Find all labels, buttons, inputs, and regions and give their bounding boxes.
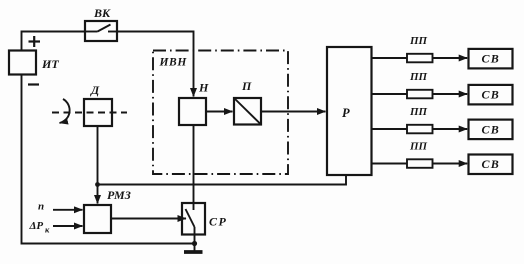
rotation arrow left of Д xyxy=(60,99,70,123)
block Р (tall box) xyxy=(327,47,372,175)
svg-text:СВ: СВ xyxy=(482,52,500,66)
input arrow n into РМЗ xyxy=(53,209,83,211)
label П xyxy=(241,79,252,93)
resistor ПП row 3 xyxy=(407,125,433,134)
svg-text:Д: Д xyxy=(90,83,100,97)
svg-text:п: п xyxy=(38,201,44,213)
wire: ПП to СВ row 4 xyxy=(433,163,468,165)
motor Д (box) xyxy=(84,99,112,126)
junction dot at ground xyxy=(192,241,197,246)
input arrow ΔРк into РМЗ xyxy=(53,225,83,227)
svg-text:РМЗ: РМЗ xyxy=(107,188,131,202)
svg-text:ПП: ПП xyxy=(409,35,428,47)
svg-text:ПП: ПП xyxy=(409,106,428,118)
svg-text:ПП: ПП xyxy=(409,141,428,153)
wire: Н down to СР switch xyxy=(193,125,195,210)
junction dot xyxy=(95,182,100,187)
wire: top bus from ВК to corner above Н with arrow into Н xyxy=(117,32,194,97)
wire: ПП to СВ row 2 xyxy=(433,93,468,95)
svg-text:ИВН: ИВН xyxy=(159,57,188,69)
resistor ПП row 1 xyxy=(407,54,433,63)
wire: РМЗ output arrow into СР xyxy=(111,218,186,220)
wire: Д down to junction xyxy=(97,126,99,185)
label РМЗ xyxy=(107,188,131,202)
svg-text:Н: Н xyxy=(198,81,209,95)
label ИВН xyxy=(159,57,188,69)
shaft axis (dashed) through Д xyxy=(52,112,127,114)
block СВ row 4 xyxy=(469,155,513,175)
block СВ row 1 xyxy=(469,49,513,69)
svg-text:ИТ: ИТ xyxy=(41,57,59,71)
resistor ПП row 4 xyxy=(407,159,433,168)
wire: arrow from junction down into РМЗ xyxy=(97,185,99,204)
label СР xyxy=(209,215,227,229)
label n xyxy=(38,201,44,213)
svg-text:П: П xyxy=(241,79,252,93)
label Н xyxy=(198,81,209,95)
svg-text:к: к xyxy=(45,225,50,235)
label Д xyxy=(90,83,100,97)
ground symbol xyxy=(184,244,203,253)
label ПП row 1 xyxy=(409,35,428,47)
label ΔРк xyxy=(29,220,51,235)
wire: feedback line from junction to bottom of Р xyxy=(98,175,347,185)
svg-text:Р: Р xyxy=(342,106,350,120)
svg-text:ПП: ПП xyxy=(409,71,428,83)
block СВ row 3 xyxy=(469,120,513,140)
svg-text:СВ: СВ xyxy=(482,157,500,171)
svg-text:СВ: СВ xyxy=(482,123,500,137)
wire: arrow Н to П xyxy=(206,111,233,113)
label ВК xyxy=(93,6,111,20)
label ПП row 4 xyxy=(409,141,428,153)
svg-text:ΔР: ΔР xyxy=(29,220,44,232)
output row 3: wire Р to ПП xyxy=(372,128,408,130)
output row 4: wire Р to ПП xyxy=(372,163,408,165)
plus terminal mark xyxy=(29,36,41,47)
block Н (box) xyxy=(179,98,206,125)
label Р xyxy=(342,106,350,120)
label ПП row 3 xyxy=(409,106,428,118)
svg-text:ВК: ВК xyxy=(93,6,111,20)
wire: top bus from ИТ plus terminal to ВК xyxy=(22,32,86,51)
wire: ПП to СВ row 1 xyxy=(433,57,468,59)
wire: ПП to СВ row 3 xyxy=(433,128,468,130)
source ИТ (box) xyxy=(9,51,36,75)
block П (box with diagonal) xyxy=(234,98,261,125)
block ИВН (dash-dot frame) xyxy=(153,51,288,175)
resistor ПП row 2 xyxy=(407,90,433,99)
label СВ row 3 xyxy=(482,123,500,137)
output row 1: wire Р to ПП xyxy=(372,57,408,59)
output row 2: wire Р to ПП xyxy=(372,93,408,95)
block СВ row 2 xyxy=(469,85,513,105)
label ПП row 2 xyxy=(409,71,428,83)
wire: ИТ minus down left side to bottom bus xyxy=(22,75,195,244)
label СВ row 4 xyxy=(482,157,500,171)
label ИТ xyxy=(41,57,59,71)
switch ВК (box with blade contact) xyxy=(85,21,117,41)
label СВ row 2 xyxy=(482,88,500,102)
svg-text:СВ: СВ xyxy=(482,88,500,102)
minus terminal mark xyxy=(28,83,39,85)
switch СР (box with blade) xyxy=(182,203,205,235)
wire: СР down to ground junction xyxy=(194,227,196,244)
block РМЗ (box) xyxy=(84,205,111,233)
wire: П output arrow to Р xyxy=(261,111,326,113)
label СВ row 1 xyxy=(482,52,500,66)
svg-text:СР: СР xyxy=(209,215,227,229)
